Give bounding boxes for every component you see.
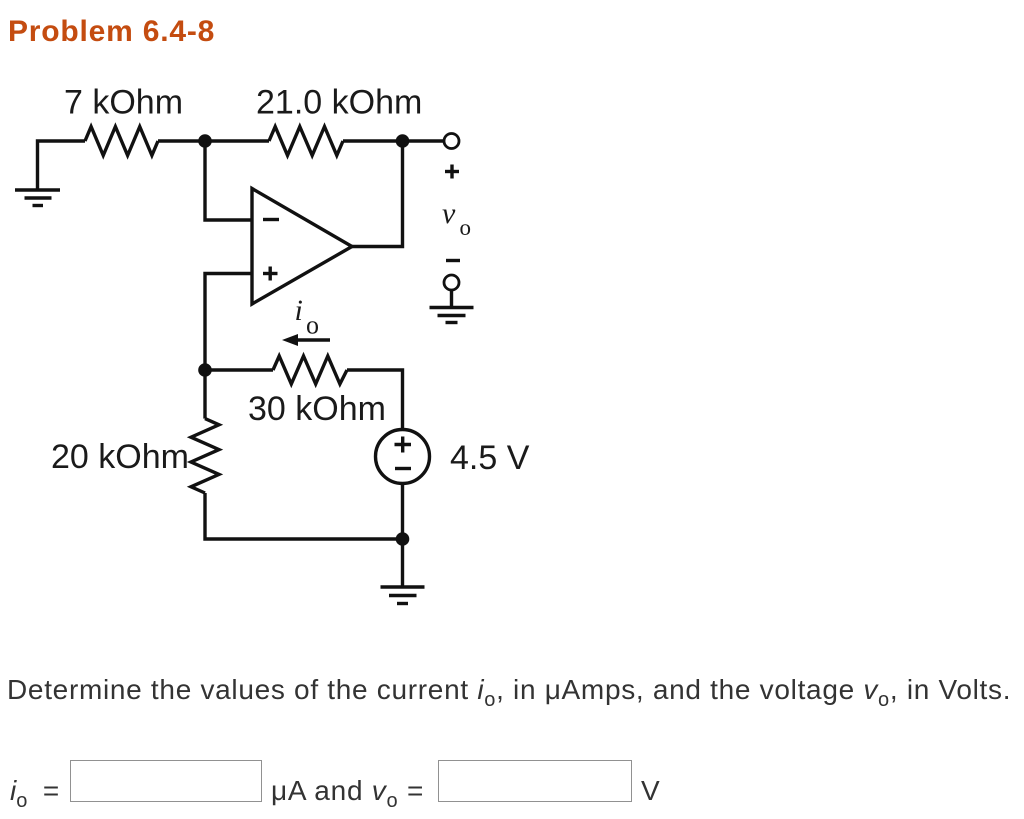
- voltage source V1 4.5 V circle: [376, 430, 430, 484]
- title: [8, 15, 215, 49]
- wire: node D ground stem: [401, 539, 404, 587]
- svg-text:7 kOhm: 7 kOhm: [64, 84, 183, 122]
- wire: node A to 21k: [205, 139, 269, 142]
- resistor R3 30 kOhm zigzag: [273, 356, 347, 384]
- ground (output reference): [430, 308, 474, 323]
- svg-text:i: i: [295, 294, 303, 327]
- wire: 7k to node A: [158, 139, 205, 142]
- source plus mark: [395, 437, 412, 453]
- node C junction dot: [198, 363, 212, 377]
- op-amp plus input label: [263, 267, 278, 281]
- op-amp U1 triangle: [252, 189, 352, 305]
- resistor R1 7 kOhm zigzag: [85, 127, 158, 156]
- wire: node C to 30k: [205, 368, 273, 371]
- output terminal open circle: [444, 134, 459, 149]
- wire: node A down to inverting input: [205, 141, 252, 220]
- wire: node B to output terminal: [403, 139, 445, 142]
- current arrow i_o pointing left: [294, 338, 330, 341]
- wire: stem below lower terminal: [450, 290, 453, 306]
- lower output terminal open circle: [444, 275, 459, 290]
- node A junction dot: [198, 134, 212, 148]
- svg-text:20 kOhm: 20 kOhm: [51, 438, 189, 476]
- svg-text:4.5 V: 4.5 V: [450, 439, 530, 477]
- wire: node C down to 20k: [203, 370, 206, 419]
- svg-text:v: v: [442, 197, 456, 230]
- svg-text:30 kOhm: 30 kOhm: [248, 390, 386, 428]
- resistor R4 20 kOhm zigzag (vertical): [191, 419, 219, 493]
- input box for i_o: [70, 760, 262, 802]
- svg-text:o: o: [460, 215, 472, 240]
- label i_o (current arrow): [295, 294, 320, 340]
- wire: noninverting input left and down to node C: [205, 274, 252, 371]
- ground (bottom): [381, 587, 425, 604]
- wire: op-amp output to feedback column: [352, 141, 403, 247]
- answer row: i_o =: [10, 775, 59, 807]
- node B junction dot: [396, 134, 410, 148]
- answer row: uA and v_o =: [271, 775, 424, 807]
- node D junction dot: [396, 532, 410, 546]
- wire: 21k to node B: [343, 139, 403, 142]
- resistor R2 21.0 kOhm zigzag: [269, 127, 343, 156]
- problem statement text: [7, 674, 1011, 706]
- svg-text:o: o: [306, 311, 319, 340]
- plus sign (v_o polarity): [445, 165, 459, 179]
- wire: source bottom to node D: [401, 484, 404, 540]
- answer row: V: [641, 775, 660, 807]
- minus sign (v_o polarity): [446, 259, 460, 262]
- source minus mark: [395, 467, 411, 470]
- wire: left ground riser and top-left segment: [38, 141, 86, 190]
- circuit schematic: [0, 0, 560, 640]
- label v_o: [442, 197, 471, 240]
- op-amp minus input label: [263, 218, 279, 221]
- ground (left, under 7 kOhm source end): [15, 190, 60, 206]
- svg-text:21.0 kOhm: 21.0 kOhm: [256, 84, 422, 122]
- wire: 20k bottom then bottom rail to node D: [205, 493, 403, 539]
- input box for v_o: [438, 760, 632, 802]
- wire: 30k right to source top: [347, 370, 403, 430]
